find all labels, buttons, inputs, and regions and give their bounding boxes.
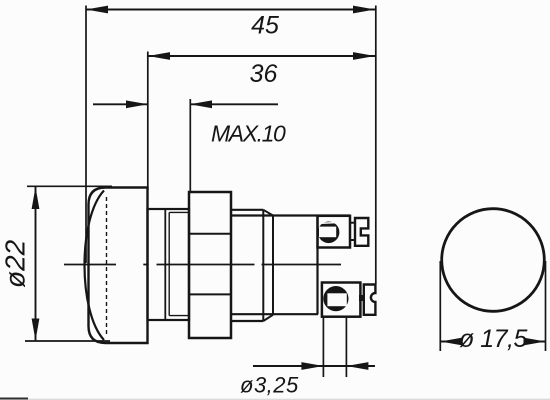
washer top edge [231, 209, 263, 211]
upper terminal stub top [350, 222, 357, 224]
washer rear edge [262, 210, 264, 321]
extension line right of 45/36 dims [375, 6, 377, 285]
scan edge line bottom [0, 398, 550, 400]
cap / lens bezel outline [89, 188, 148, 344]
front view circle [442, 209, 545, 312]
extension lines of diameter 3,25 dim [322, 317, 324, 377]
lens dome arc [85, 191, 105, 341]
extension lines of diameter 22 dim [27, 185, 112, 187]
washer bottom edge [231, 320, 263, 322]
body front edge [272, 216, 274, 315]
threaded collar outline [148, 209, 190, 320]
body rear edge [316, 216, 318, 315]
svg-text:45: 45 [251, 12, 279, 40]
lower terminal block [322, 283, 361, 317]
upper terminal screw head [318, 222, 340, 244]
thread root line top [169, 211, 189, 213]
svg-text:ø3,25: ø3,25 [240, 373, 299, 398]
extension lines of diameter 17,5 dim [439, 261, 441, 351]
nut facet line upper [189, 233, 231, 235]
svg-text:ø 17,5: ø 17,5 [459, 325, 527, 353]
collar step line [164, 209, 166, 320]
upper terminal block [318, 216, 351, 248]
lower terminal stub [359, 295, 365, 301]
extension line right of MAX.10 dim [189, 99, 191, 192]
dimension line diameter 3,25 [253, 365, 375, 367]
dimension line 45 [86, 9, 375, 11]
svg-text:ø22: ø22 [0, 239, 31, 288]
dimension line MAX.10 (arrows outside pointing inward) [93, 103, 148, 105]
body top edge [231, 214, 350, 216]
body bottom edge [231, 313, 318, 315]
dimension line 36 [148, 55, 375, 57]
thread root line bottom [169, 315, 189, 317]
chamfer top [263, 210, 273, 216]
extension line left of 45 dim [85, 6, 87, 264]
svg-text:36: 36 [250, 60, 278, 88]
lower terminal screw head [323, 286, 348, 311]
nut facet line lower [189, 293, 231, 295]
svg-text:MAX.10: MAX.10 [211, 121, 286, 147]
dimension line diameter 17,5 (arrows outward) [440, 341, 458, 343]
thread root line vertical [168, 212, 170, 315]
centerline (dash-dot axis of side view) [64, 264, 116, 266]
upper terminal stub bottom [350, 239, 357, 241]
scan mark bottom left [0, 398, 28, 400]
dimension line diameter 22 (vertical) [35, 187, 37, 341]
extension line left of 36 dim [147, 52, 149, 191]
chamfer bottom [263, 315, 273, 321]
lower clamp bracket [364, 285, 376, 315]
hex nut outline [189, 192, 231, 338]
lens rim dashed line [106, 197, 108, 334]
upper clamp bracket [355, 218, 368, 246]
